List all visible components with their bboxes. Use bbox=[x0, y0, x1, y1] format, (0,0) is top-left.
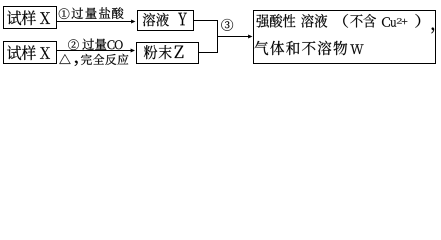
wire: 溶液Y → vertical bus bbox=[194, 20, 219, 22]
text: 试样X (top box) bbox=[7, 11, 50, 26]
arrow ①: 试样X → 溶液Y bbox=[57, 20, 136, 24]
wire: vertical bus joining Y and Z outputs bbox=[217, 20, 219, 53]
box: 溶液Y (solution Y) bbox=[138, 11, 194, 31]
text line 2: 气体和不溶物W bbox=[255, 41, 364, 55]
arrow ③: bus → products box bbox=[218, 35, 253, 39]
box: 试样X (sample X, bottom) bbox=[4, 42, 57, 64]
label: ②过量CO (step 2 reagent) bbox=[68, 39, 122, 51]
text: 粉末Z bbox=[144, 45, 184, 59]
text line 1: 强酸性溶液（不含Cu2+）， bbox=[256, 14, 434, 33]
box: 试样X (sample X, top) bbox=[4, 7, 57, 29]
box: 粉末Z (powder Z) bbox=[137, 43, 199, 64]
text: 试样X (bottom box) bbox=[7, 45, 50, 60]
text: 溶液Y bbox=[143, 13, 187, 27]
label: ①过量盐酸 (step 1 reagent) bbox=[59, 7, 124, 19]
label: ③ (step 3) bbox=[221, 19, 233, 31]
box: products (strongly acidic solution, gas, insoluble W) bbox=[254, 11, 436, 64]
arrow ②: 试样X → 粉末Z bbox=[57, 49, 135, 53]
label: △，完全反应 (step 2 conditions) bbox=[59, 54, 128, 66]
wire: 粉末Z → vertical bus bbox=[199, 52, 219, 54]
